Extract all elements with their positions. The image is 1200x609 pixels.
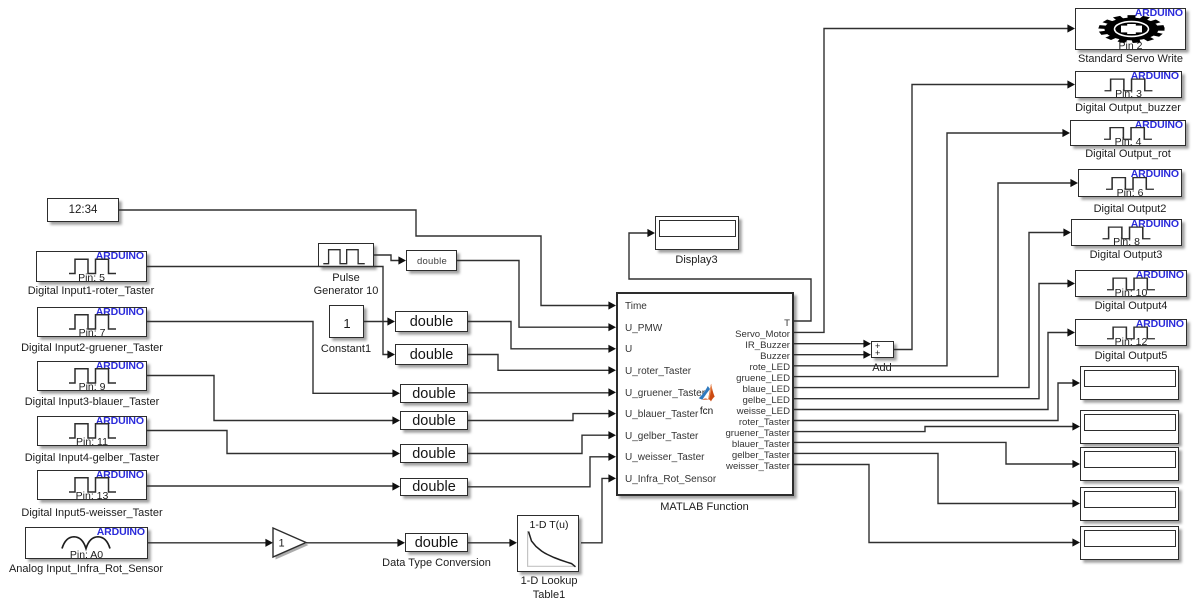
- icon square wave Pulse Generator: [323, 250, 364, 264]
- arduino digital input block Digital Input5-weisser_Taster: [37, 470, 147, 500]
- icon square wave Digital Output 2: [1104, 128, 1152, 140]
- label Digital Output2: [1094, 203, 1167, 216]
- icon square wave Digital Input1: [69, 259, 116, 273]
- display block output 2: [1080, 410, 1179, 444]
- icon square wave Digital Input4: [69, 424, 116, 438]
- double block Data Type Conversion: [405, 533, 468, 552]
- label Display3: [675, 254, 717, 267]
- label Table1: [533, 589, 565, 602]
- label Digital Input4-gelber_Taster: [25, 452, 160, 465]
- display block output 5: [1080, 526, 1179, 560]
- wire Digital Input2 to double: [147, 322, 400, 398]
- display block output 4: [1080, 487, 1179, 521]
- wire gruener_Taster output to display 2: [794, 422, 1080, 431]
- display block output 1: [1080, 366, 1179, 400]
- double block row U_gelber: [400, 444, 468, 463]
- label Generator 10: [314, 285, 379, 298]
- label Constant1: [321, 343, 371, 356]
- label Data Type Conversion: [382, 557, 491, 570]
- label Add: [872, 362, 892, 375]
- wire double to U_gruener_Taster input: [468, 388, 616, 396]
- wire rote_LED output to Digital Output_rot: [794, 129, 1070, 366]
- double block row U_blauer: [400, 411, 468, 430]
- icon square wave Digital Input3: [69, 369, 116, 383]
- wire Digital Input1 to double: [147, 267, 395, 359]
- arduino digital input block Digital Input3-blauer_Taster: [37, 361, 147, 391]
- wire T output to Display3: [629, 229, 811, 321]
- wire Analog Input to gain: [148, 539, 273, 547]
- label Pulse: [332, 272, 360, 285]
- wire Buzzer output to Add: [794, 351, 871, 359]
- wire double to U_PMW input: [457, 261, 616, 332]
- MATLAB Function block: [616, 292, 794, 496]
- servo gear icon: [1098, 15, 1164, 43]
- wire Add to Digital Output_buzzer: [894, 80, 1075, 349]
- MATLAB logo: [699, 384, 715, 402]
- digital clock block "12:34": [47, 198, 119, 222]
- wire double to U_weisser_Taster input: [468, 453, 616, 487]
- arduino digital output block Digital Output_rot: [1070, 120, 1186, 146]
- label Digital Output4: [1095, 300, 1168, 313]
- label Digital Input5-weisser_Taster: [21, 507, 162, 520]
- label Digital Input3-blauer_Taster: [25, 396, 160, 409]
- label Digital Output5: [1095, 350, 1168, 363]
- small data type conversion block double (pulse): [406, 250, 457, 271]
- arduino digital output block Digital Output5: [1075, 319, 1187, 346]
- icon square wave Digital Output 3: [1106, 178, 1154, 190]
- wire pulse generator to double: [374, 255, 406, 265]
- lookup table axes and curve: [528, 531, 576, 567]
- double block row U_gruener: [400, 384, 468, 403]
- wire gelber_Taster output to display 4: [794, 453, 1080, 507]
- wire Constant1 to double: [364, 317, 395, 325]
- label 1-D Lookup: [521, 575, 578, 588]
- arduino digital input block Digital Input1-roter_Taster: [36, 251, 147, 282]
- double block row U_roter: [395, 344, 468, 365]
- arduino analog input block Analog Input_Infra_Rot_Sensor: [25, 527, 148, 559]
- arduino standard servo write block Pin 2: [1075, 8, 1186, 50]
- icon square wave Digital Output 5: [1107, 278, 1155, 290]
- wire Digital Input5 to double: [147, 482, 400, 490]
- wire double to U_gelber_Taster input: [468, 431, 616, 453]
- constant block Constant1 value 1: [329, 305, 364, 338]
- svg-text:1: 1: [279, 538, 285, 550]
- label MATLAB Function: [660, 501, 748, 514]
- arduino digital input block Digital Input4-gelber_Taster: [37, 416, 147, 446]
- label Digital Output_rot: [1085, 148, 1171, 161]
- wire roter_Taster output to display 1: [794, 379, 1080, 421]
- add block: [871, 341, 894, 358]
- wire gain to Data Type Conversion: [306, 539, 405, 547]
- wire Digital Input3 to double: [147, 376, 400, 425]
- label Digital Input1-roter_Taster: [28, 285, 155, 298]
- double block row U: [395, 311, 468, 332]
- label Standard Servo Write: [1078, 53, 1183, 66]
- label Digital Output3: [1090, 249, 1163, 262]
- arduino digital output block Digital Output2: [1078, 169, 1182, 197]
- arduino digital output block Digital Output_buzzer: [1075, 71, 1182, 98]
- wire clock to Time input: [119, 210, 616, 310]
- 1-D lookup table block: [517, 515, 579, 572]
- wire double to U_roter_Taster input: [468, 355, 616, 375]
- display block output 3: [1080, 447, 1179, 481]
- icon square wave Digital Input2: [69, 315, 116, 329]
- icon square wave Digital Output 6: [1107, 327, 1155, 339]
- wire blauer_Taster output to display 3: [794, 442, 1080, 468]
- arduino digital input block Digital Input2-gruener_Taster: [37, 307, 147, 337]
- wire blaue_LED output to Digital Output3: [794, 228, 1071, 387]
- label Digital Input2-gruener_Taster: [21, 342, 163, 355]
- icon square wave Digital Output 1: [1105, 79, 1153, 91]
- wire weisse_LED output to Digital Output5: [794, 328, 1075, 409]
- wire Data Type Conversion to lookup table: [468, 539, 517, 547]
- pulse generator block: [318, 243, 374, 267]
- wire double to U_blauer_Taster input: [468, 410, 616, 421]
- label Digital Output_buzzer: [1075, 102, 1181, 115]
- wire double to U input: [468, 322, 616, 353]
- label Analog Input_Infra_Rot_Sensor: [9, 563, 163, 576]
- display block Display3: [655, 216, 739, 250]
- wire gruene_LED output to Digital Output2: [794, 179, 1078, 377]
- wire Servo_Motor output to Standard Servo Write: [794, 24, 1075, 332]
- icon square wave Digital Output 4: [1103, 227, 1151, 239]
- gain triangle block: [273, 528, 309, 560]
- arduino digital output block Digital Output3: [1071, 219, 1182, 246]
- icon sine wave Analog Input: [62, 537, 110, 549]
- icon square wave Digital Input5: [69, 478, 116, 492]
- double block row U_weisser: [400, 478, 468, 496]
- wire gelbe_LED output to Digital Output4: [794, 279, 1075, 398]
- arduino digital output block Digital Output4: [1075, 270, 1187, 297]
- wire weisser_Taster output to display 5: [794, 465, 1080, 547]
- wire Digital Input4 to double: [147, 431, 400, 458]
- wire lookup table to U_Infra_Rot_Sensor input: [581, 474, 616, 543]
- wire IR_Buzzer output to Add: [794, 340, 871, 348]
